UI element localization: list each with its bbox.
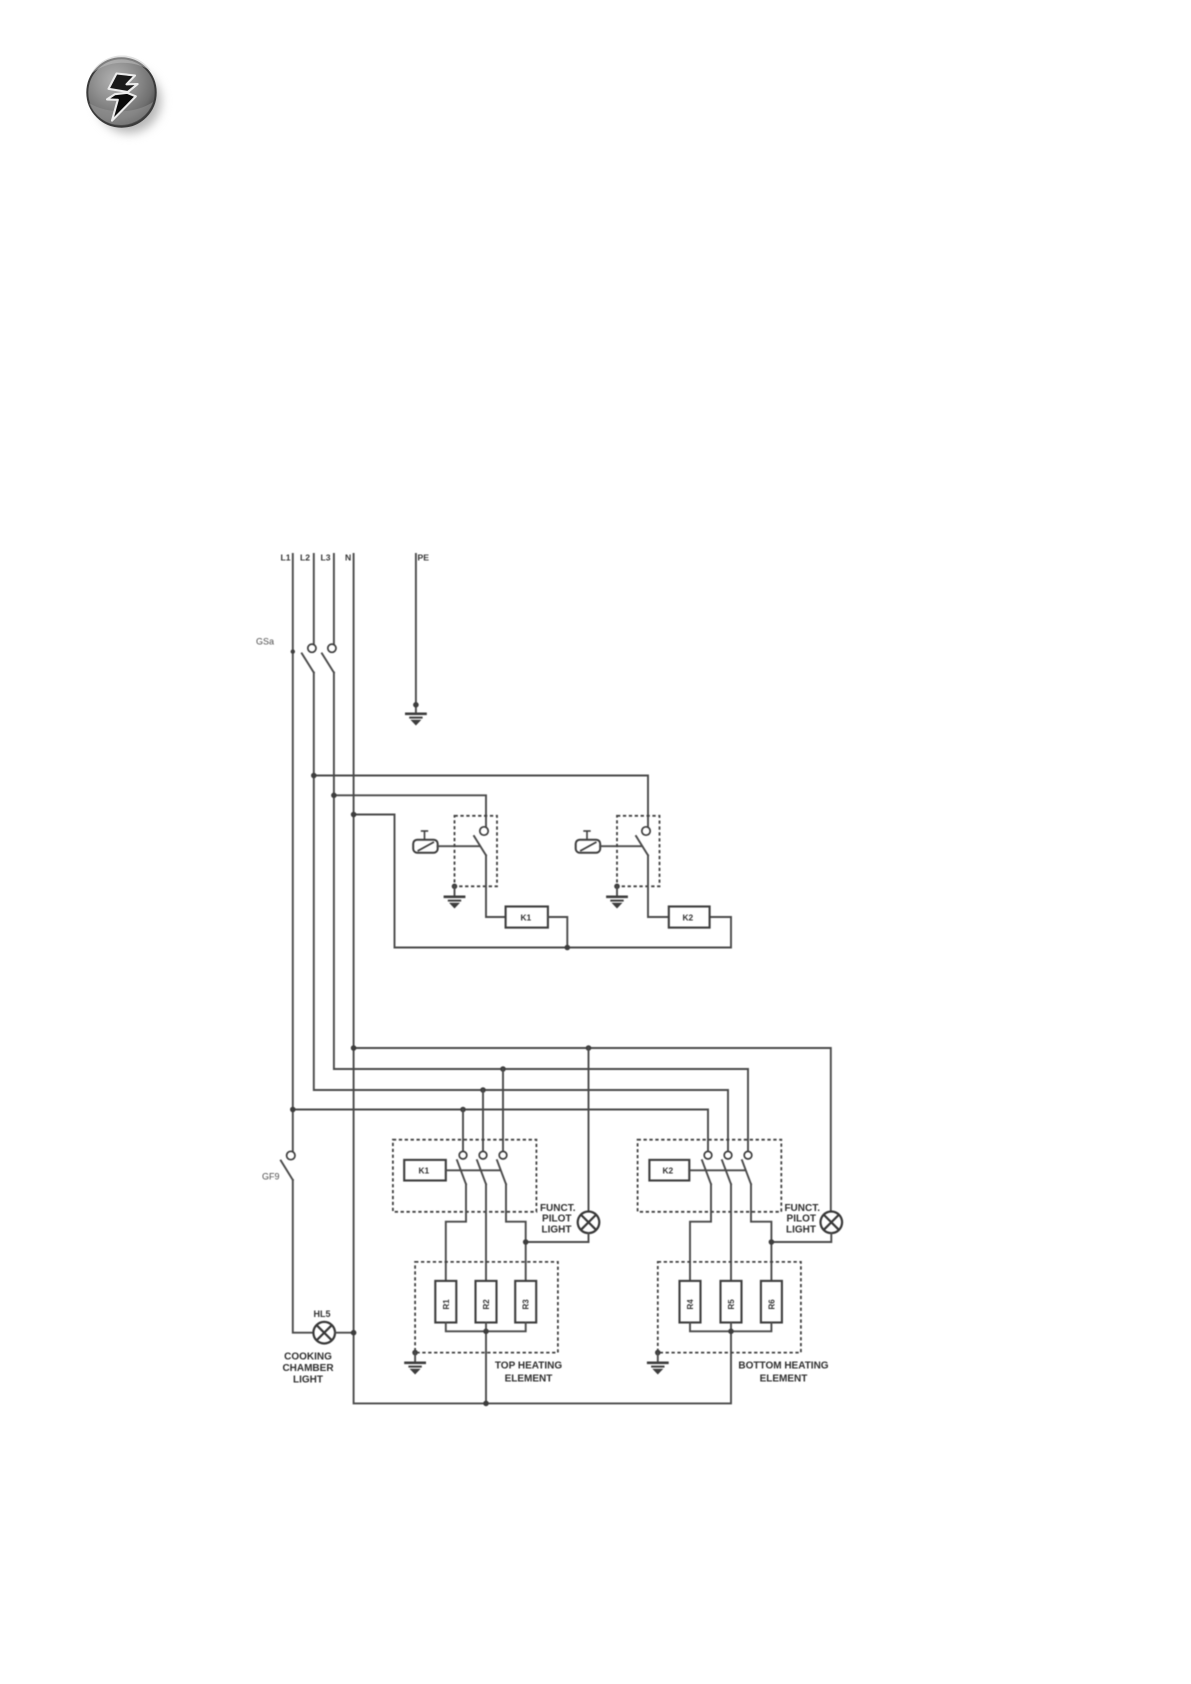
svg-text:CHAMBER: CHAMBER: [282, 1363, 334, 1374]
svg-text:K2: K2: [663, 1166, 674, 1176]
contact K1 pole1: [457, 1151, 467, 1184]
wire K1 pole2 out to R2: [485, 1184, 487, 1281]
wire pilot1 feed: [588, 1048, 590, 1211]
wire heater top ground: [414, 1353, 416, 1362]
node R2 bus junction: [483, 1401, 489, 1407]
svg-text:R5: R5: [727, 1299, 736, 1310]
ground S2: [606, 896, 628, 909]
svg-text:N: N: [345, 553, 351, 563]
wire K1 pole3 out to R3: [506, 1184, 526, 1281]
svg-text:K2: K2: [683, 912, 694, 922]
node N tap junction: [351, 812, 357, 818]
svg-text:FUNCT.: FUNCT.: [784, 1203, 820, 1214]
svg-text:GF9: GF9: [262, 1172, 280, 1182]
node L2 tap junction: [311, 773, 317, 779]
wire S1 frame to ground: [454, 886, 456, 895]
svg-text:K1: K1: [419, 1166, 430, 1176]
resistor R1: [435, 1281, 456, 1323]
svg-text:R6: R6: [767, 1299, 776, 1310]
svg-text:BOTTOM HEATING: BOTTOM HEATING: [738, 1361, 828, 1372]
ground heater top: [404, 1362, 426, 1375]
relay switch S2 contact: [636, 827, 650, 856]
node PE junction dot: [413, 702, 419, 708]
node GSa mark on L1: [291, 649, 295, 653]
wire R1-R3 bottoms: [446, 1323, 526, 1332]
ground S1: [444, 896, 466, 909]
wire K1 pole3 feed: [502, 1069, 504, 1151]
svg-text:LIGHT: LIGHT: [542, 1224, 572, 1235]
wire R4-R6 bottoms: [690, 1323, 771, 1332]
wire L1 to HL5: [293, 1180, 314, 1333]
wire coil K1 return: [548, 917, 567, 948]
wire S2 frame to ground: [616, 886, 618, 895]
svg-text:LIGHT: LIGHT: [293, 1375, 323, 1386]
svg-text:PE: PE: [418, 553, 430, 563]
wire pilot1 return: [526, 1233, 589, 1242]
svg-text:LIGHT: LIGHT: [786, 1224, 816, 1235]
wire L1 bus: [293, 1110, 708, 1152]
node heater bottom ground junction: [655, 1350, 661, 1356]
resistor R4: [680, 1281, 701, 1323]
node S2 frame ground junction: [614, 884, 620, 890]
wire S1 to coil K1: [486, 855, 506, 917]
contactor K2 coil box: [649, 1160, 689, 1181]
heater bottom dashed box: [658, 1262, 801, 1353]
relay switch S1 contact: [474, 827, 488, 856]
relay switch S1 dashed box: [455, 816, 498, 887]
label cooking chamber light: [282, 1351, 334, 1385]
contactor K2 dashed box: [638, 1140, 782, 1212]
node N bus junction: [351, 1045, 357, 1051]
node heater top ground junction: [412, 1350, 418, 1356]
coil K2: [669, 907, 710, 928]
node L1 bus junction: [290, 1107, 296, 1113]
node R5 bottom junction: [728, 1329, 734, 1335]
resistor R5: [721, 1281, 742, 1323]
svg-text:TOP HEATING: TOP HEATING: [495, 1361, 562, 1372]
node coil return junction: [565, 945, 571, 951]
svg-text:K1: K1: [521, 912, 532, 922]
svg-text:R4: R4: [686, 1299, 695, 1310]
node K1 pole1 tap junction: [460, 1107, 466, 1113]
contactor K1 dashed box: [393, 1140, 537, 1212]
ground PE: [405, 713, 427, 726]
svg-text:COOKING: COOKING: [284, 1351, 332, 1362]
svg-text:ELEMENT: ELEMENT: [760, 1374, 808, 1385]
node L3 tap junction: [331, 793, 337, 799]
resistor R2: [476, 1281, 497, 1323]
svg-text:PILOT: PILOT: [542, 1214, 571, 1225]
wire R5 bottom stub: [730, 1323, 732, 1332]
label funct pilot light 1: [540, 1203, 576, 1236]
svg-text:R2: R2: [482, 1299, 491, 1310]
wire L3 upper: [333, 554, 335, 644]
wire N: [354, 554, 731, 1403]
wire L3 lower: [334, 673, 748, 1152]
wire L1 upper: [292, 554, 294, 1151]
node S1 frame ground junction: [452, 884, 458, 890]
resistor R6: [761, 1281, 782, 1323]
lamp pilot 1: [578, 1212, 600, 1234]
wire K2 linkage: [689, 1169, 745, 1171]
label bottom heating element: [738, 1361, 828, 1385]
contact K2 pole2: [722, 1151, 732, 1184]
svg-text:L1: L1: [281, 553, 291, 563]
svg-text:FUNCT.: FUNCT.: [540, 1203, 576, 1214]
wire PE: [415, 554, 417, 713]
wire K1 linkage: [446, 1169, 500, 1171]
svg-text:ELEMENT: ELEMENT: [505, 1374, 553, 1385]
wire L3 tap to relay 1: [334, 795, 486, 827]
svg-text:GSa: GSa: [256, 637, 274, 647]
logo lightning ball icon: [87, 55, 161, 133]
wire R2 bottom stub: [485, 1323, 487, 1404]
contact K2 pole1: [702, 1151, 712, 1184]
wire heater bottom ground: [657, 1353, 659, 1362]
heater top dashed box: [415, 1262, 558, 1353]
node pilot1 feed junction: [586, 1045, 592, 1051]
svg-text:PILOT: PILOT: [787, 1214, 816, 1225]
svg-text:R3: R3: [522, 1299, 531, 1310]
switch GSa pole L3: [322, 644, 336, 672]
thermostat B2 body: [576, 831, 601, 853]
svg-text:HL5: HL5: [314, 1309, 331, 1319]
node R2 bottom junction: [483, 1329, 489, 1335]
node K1 pole2 tap junction: [480, 1087, 486, 1093]
thermostat B1 body: [413, 831, 438, 853]
node pilot2 return junction: [769, 1239, 775, 1245]
wire K2 pole3 out to R6: [751, 1184, 771, 1281]
svg-text:R1: R1: [442, 1299, 451, 1310]
wire K1 pole2 feed: [482, 1090, 484, 1151]
wire S2 to coil K2: [648, 855, 669, 917]
contact K1 pole2: [477, 1151, 487, 1184]
wire thermostat B2 to contact: [600, 845, 641, 847]
wire thermostat B1 to contact: [438, 845, 479, 847]
wire K1 pole1 feed: [462, 1110, 464, 1152]
contact K1 pole3: [497, 1151, 507, 1184]
wire L2 lower: [314, 673, 728, 1152]
lamp HL5: [313, 1322, 335, 1344]
wire L2 tap to relay 2: [314, 776, 648, 827]
switch GSa pole L2: [302, 644, 316, 672]
wire N bus mid: [354, 1048, 831, 1211]
svg-text:L2: L2: [300, 553, 310, 563]
contact K2 pole3: [742, 1151, 752, 1184]
wire L2 upper: [313, 554, 315, 644]
contactor K1 coil box: [404, 1160, 446, 1181]
node HL5 N junction: [351, 1330, 357, 1336]
wire HL5 to N: [335, 1332, 354, 1334]
wire N tap to coil return bus: [354, 815, 731, 948]
node K1 pole3 tap junction: [500, 1066, 506, 1072]
svg-text:L3: L3: [321, 553, 331, 563]
coil K1: [506, 907, 548, 928]
label top heating element: [495, 1361, 562, 1385]
lamp pilot 2: [821, 1212, 843, 1234]
relay switch S2 dashed box: [617, 816, 660, 887]
wire pilot2 return: [771, 1233, 831, 1242]
node pilot1 return junction: [523, 1239, 529, 1245]
wire K2 pole2 out to R5: [730, 1184, 732, 1281]
resistor R3: [515, 1281, 536, 1323]
switch GF9: [281, 1151, 295, 1180]
ground heater bottom: [647, 1362, 669, 1375]
wire K1 pole1 out to R1: [446, 1184, 466, 1281]
wire K2 pole1 out to R4: [690, 1184, 711, 1281]
label funct pilot light 2: [784, 1203, 820, 1236]
